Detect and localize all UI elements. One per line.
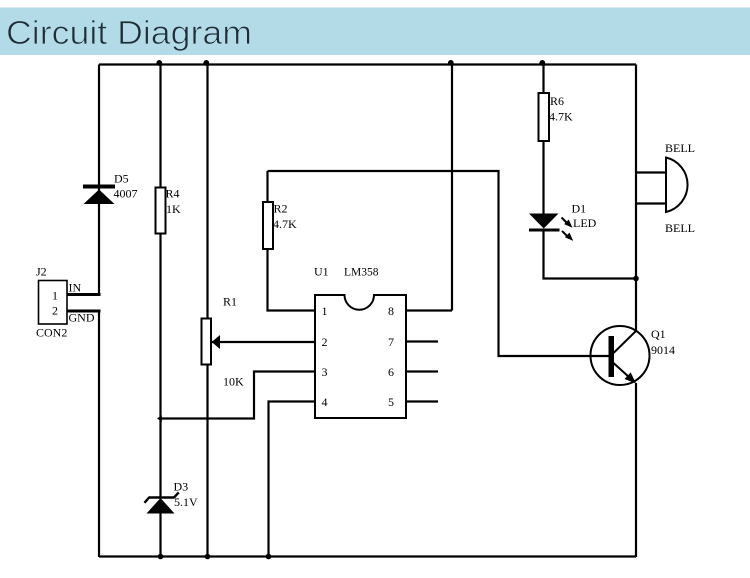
svg-text:9014: 9014 bbox=[651, 343, 675, 357]
svg-text:3: 3 bbox=[322, 365, 328, 379]
svg-text:R2: R2 bbox=[274, 202, 288, 216]
svg-text:2: 2 bbox=[322, 335, 328, 349]
svg-text:4: 4 bbox=[322, 395, 328, 409]
svg-text:LM358: LM358 bbox=[344, 265, 379, 279]
svg-text:CON2: CON2 bbox=[36, 326, 67, 340]
svg-text:R6: R6 bbox=[550, 94, 564, 108]
svg-text:1: 1 bbox=[322, 304, 328, 318]
svg-text:8: 8 bbox=[388, 304, 394, 318]
svg-text:BELL: BELL bbox=[665, 221, 695, 235]
svg-text:Circuit Diagram: Circuit Diagram bbox=[6, 14, 252, 51]
svg-text:5.1V: 5.1V bbox=[174, 495, 198, 509]
svg-text:R4: R4 bbox=[166, 187, 180, 201]
svg-text:D3: D3 bbox=[174, 480, 189, 494]
svg-text:LED: LED bbox=[573, 216, 597, 230]
svg-text:5: 5 bbox=[388, 395, 394, 409]
svg-text:2: 2 bbox=[52, 304, 58, 318]
svg-text:1K: 1K bbox=[166, 202, 181, 216]
svg-text:GND: GND bbox=[69, 311, 95, 325]
svg-text:1: 1 bbox=[52, 289, 58, 303]
svg-text:BELL: BELL bbox=[665, 141, 695, 155]
svg-text:4.7K: 4.7K bbox=[273, 217, 297, 231]
svg-text:4.7K: 4.7K bbox=[549, 110, 573, 124]
svg-text:D5: D5 bbox=[114, 172, 129, 186]
svg-text:Q1: Q1 bbox=[651, 327, 666, 341]
svg-text:U1: U1 bbox=[314, 265, 329, 279]
svg-text:10K: 10K bbox=[223, 375, 244, 389]
svg-text:J2: J2 bbox=[36, 265, 47, 279]
svg-text:D1: D1 bbox=[572, 202, 587, 216]
svg-text:IN: IN bbox=[69, 281, 82, 295]
svg-text:4007: 4007 bbox=[114, 187, 138, 201]
svg-text:7: 7 bbox=[388, 335, 394, 349]
svg-text:R1: R1 bbox=[223, 295, 237, 309]
svg-text:6: 6 bbox=[388, 365, 394, 379]
